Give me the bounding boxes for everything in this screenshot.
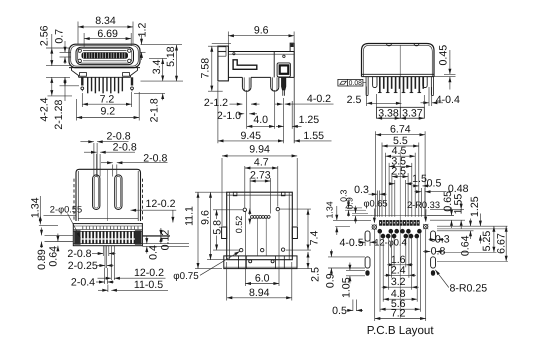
svg-text:7.2: 7.2 [100, 93, 115, 105]
svg-text:9.94: 9.94 [249, 143, 270, 155]
svg-text:2-0.8: 2-0.8 [67, 248, 91, 260]
svg-text:6.67: 6.67 [496, 233, 508, 254]
svg-text:1.55: 1.55 [303, 130, 324, 142]
svg-text:2-0.25: 2-0.25 [68, 260, 98, 272]
svg-text:4-0.4: 4-0.4 [436, 94, 460, 106]
svg-text:0.12: 0.12 [159, 230, 171, 251]
svg-text:φ0.75: φ0.75 [173, 271, 199, 282]
svg-text:0.08: 0.08 [349, 80, 362, 87]
svg-text:4-2.4: 4-2.4 [38, 97, 50, 121]
svg-text:1.34: 1.34 [324, 201, 334, 218]
svg-text:8.94: 8.94 [249, 287, 270, 299]
svg-text:6.69: 6.69 [97, 28, 118, 40]
svg-text:8.34: 8.34 [95, 15, 116, 27]
svg-text:3.2: 3.2 [391, 276, 406, 288]
svg-text:2-1.28: 2-1.28 [53, 99, 65, 129]
svg-text:9.2: 9.2 [100, 106, 115, 118]
svg-text:7.2: 7.2 [391, 307, 406, 319]
svg-text:0.64: 0.64 [460, 235, 472, 256]
svg-text:φ0.65: φ0.65 [363, 199, 387, 209]
svg-text:4.0: 4.0 [253, 114, 268, 126]
svg-text:2-1.8: 2-1.8 [149, 98, 161, 122]
svg-text:1.5: 1.5 [412, 173, 427, 185]
svg-text:4-0.2: 4-0.2 [307, 93, 331, 105]
svg-text:2.5: 2.5 [310, 267, 322, 282]
svg-text:5.25: 5.25 [481, 231, 493, 252]
svg-text:1.55: 1.55 [452, 194, 464, 215]
svg-text:2-φ0.55: 2-φ0.55 [50, 204, 82, 214]
svg-text:0.5: 0.5 [332, 305, 347, 317]
svg-text:2-0.8: 2-0.8 [113, 141, 137, 153]
svg-text:2-1.2: 2-1.2 [204, 97, 228, 109]
svg-text:11-0.5: 11-0.5 [134, 279, 163, 291]
svg-text:7.4: 7.4 [309, 231, 321, 246]
svg-text:12-0.2: 12-0.2 [134, 267, 164, 279]
svg-text:9.6: 9.6 [199, 210, 211, 225]
svg-text:0.89: 0.89 [36, 249, 48, 270]
svg-text:2.56: 2.56 [38, 25, 50, 46]
svg-text:6.0: 6.0 [255, 272, 270, 284]
svg-text:0.3: 0.3 [354, 184, 369, 196]
svg-text:0.4: 0.4 [147, 245, 159, 260]
svg-text:9.45: 9.45 [240, 130, 261, 142]
svg-text:2.73: 2.73 [250, 170, 271, 182]
svg-text:0.52: 0.52 [234, 216, 244, 234]
svg-text:1.34: 1.34 [29, 197, 41, 218]
svg-text:0.9: 0.9 [344, 197, 354, 209]
svg-text:2-R0.33: 2-R0.33 [407, 200, 440, 210]
svg-text:3.4: 3.4 [151, 59, 163, 74]
svg-text:1.2: 1.2 [137, 23, 149, 38]
svg-text:2-0.4: 2-0.4 [71, 277, 95, 289]
svg-text:4.7: 4.7 [254, 156, 269, 168]
svg-text:0.45: 0.45 [437, 45, 449, 66]
svg-text:5.18: 5.18 [165, 46, 177, 67]
svg-text:8-R0.25: 8-R0.25 [449, 283, 487, 295]
svg-text:11.1: 11.1 [183, 206, 195, 226]
svg-text:7.58: 7.58 [200, 58, 212, 79]
svg-text:12-0.2: 12-0.2 [145, 198, 175, 210]
svg-text:1.25: 1.25 [469, 196, 481, 217]
svg-text:0.7: 0.7 [53, 29, 65, 44]
svg-text:0.64: 0.64 [48, 246, 60, 267]
svg-text:6.74: 6.74 [390, 124, 411, 136]
svg-text:1.05: 1.05 [340, 277, 352, 298]
svg-text:9.6: 9.6 [254, 24, 269, 36]
svg-text:2-0.8: 2-0.8 [143, 153, 167, 165]
svg-text:2.5: 2.5 [347, 94, 362, 106]
svg-text:2.5: 2.5 [391, 166, 406, 178]
svg-text:1.25: 1.25 [299, 114, 320, 126]
svg-text:0.5: 0.5 [427, 178, 442, 190]
svg-text:2-1.0: 2-1.0 [217, 110, 241, 122]
svg-text:0.9: 0.9 [324, 273, 336, 288]
svg-text:5.8: 5.8 [211, 220, 223, 235]
svg-text:2.4: 2.4 [391, 264, 406, 276]
svg-text:12-φ0.4: 12-φ0.4 [374, 238, 406, 248]
svg-text:P.C.B Layout: P.C.B Layout [367, 324, 435, 337]
